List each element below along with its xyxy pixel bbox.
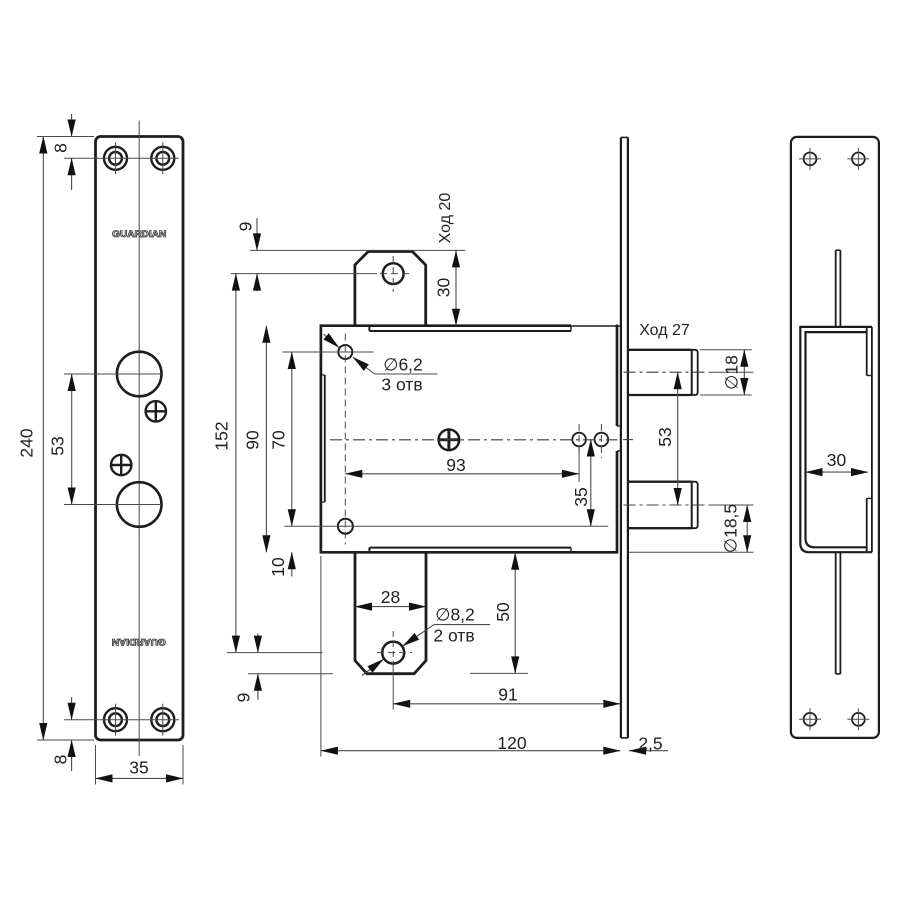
dim 91 line: [393, 703, 620, 705]
svg-text:30: 30: [434, 278, 454, 298]
top tab hole: [383, 263, 404, 284]
svg-text:9: 9: [234, 693, 254, 703]
leader dia 6.2 arrows: [324, 334, 339, 347]
upper bolt centerline: [624, 371, 710, 373]
body holes vertical dashed axis: [344, 334, 346, 545]
upper bolt end cap: [692, 350, 698, 395]
screw hole bottom-right crosshair: [162, 704, 164, 736]
main horizontal centerline: [330, 439, 618, 441]
screw hole bottom-left inner: [109, 713, 122, 726]
dim 8 top arrows: [71, 114, 73, 137]
svg-text:∅8,2: ∅8,2: [435, 605, 475, 625]
body right edge lower: [616, 451, 619, 554]
left edge slot line: [324, 375, 326, 502]
faceplate edge-on left line: [620, 137, 622, 738]
svg-text:93: 93: [446, 455, 465, 475]
cylinder hole lower centerline: [118, 504, 162, 506]
screw hole bottom-right outer: [151, 708, 174, 731]
screw hole top-right inner: [156, 152, 169, 165]
svg-text:8: 8: [51, 143, 71, 153]
dim 240 bottom extension: [37, 739, 94, 741]
svg-text:35: 35: [129, 758, 148, 778]
body bottom edge: [320, 551, 618, 554]
svg-text:91: 91: [498, 685, 517, 705]
cylinder hole upper: [117, 352, 162, 397]
body left edge: [320, 325, 323, 554]
body center hole cross: [437, 438, 460, 441]
dim 93 extension: [578, 447, 580, 483]
leader dia 8.2 underline: [434, 624, 490, 626]
svg-text:2 отв: 2 отв: [433, 626, 474, 646]
bottom tab hole: [382, 642, 404, 664]
dim dia18.5 extension lines: [629, 551, 754, 553]
svg-text:8: 8: [51, 755, 71, 765]
svg-text:50: 50: [493, 602, 513, 622]
right plate hole top-right: [852, 153, 865, 166]
dim 9 top arrows: [256, 218, 258, 250]
screw hole top-left crosshair: [115, 142, 117, 174]
body hole bottom-left centerline: [285, 525, 609, 527]
svg-text:240: 240: [17, 428, 37, 457]
dim dia18 extension lines: [700, 349, 752, 351]
dim 9 top extension lines: [250, 249, 465, 251]
svg-text:30: 30: [827, 450, 847, 470]
svg-text:53: 53: [48, 436, 68, 455]
cover plate bottom line: [369, 547, 571, 549]
dim 9 bottom arrows: [257, 634, 259, 653]
svg-text:90: 90: [243, 430, 263, 450]
left faceplate vertical centerline: [138, 121, 140, 757]
bottom tab hole crosshair: [392, 631, 394, 666]
bottom mounting tab outline: [355, 551, 426, 673]
screw hole bottom-left crosshair: [115, 704, 117, 736]
body top edge: [320, 324, 571, 327]
right plate hole top-left: [804, 153, 817, 166]
leader dia 6.2 underline: [375, 373, 438, 375]
dim 50 line: [514, 553, 516, 674]
lower bolt body: [628, 482, 691, 529]
svg-text:GUARDIAN: GUARDIAN: [112, 636, 166, 647]
dim 53 left extension lines: [64, 373, 118, 375]
dim dia18.5 line: [746, 505, 748, 552]
cylinder hole upper centerline: [118, 373, 162, 375]
dim 91 extension: [392, 664, 394, 710]
svg-text:GUARDIAN: GUARDIAN: [112, 229, 166, 240]
upper rod edge-on: [835, 250, 837, 327]
body right edge upper: [616, 325, 619, 427]
dim 152 line: [235, 274, 237, 653]
svg-text:28: 28: [381, 587, 400, 607]
screw hole top-left outer: [104, 147, 127, 170]
svg-text:3 отв: 3 отв: [381, 375, 422, 395]
dim 35 right line: [590, 440, 592, 527]
channel inner outline: [806, 332, 867, 547]
right plate hole top-left crosshair: [799, 158, 821, 160]
channel outer outline: [800, 327, 872, 552]
right plate hole bottom-right crosshair: [847, 718, 869, 720]
right pair dashed axes: [578, 424, 580, 456]
channel right lip inner segments: [866, 327, 868, 376]
dim 53 left line: [71, 374, 73, 505]
screw hole bottom-right inner: [156, 713, 169, 726]
upper bolt body: [628, 350, 691, 395]
dim 2.5 arrow: [629, 750, 668, 752]
dim dia18 line: [743, 350, 745, 395]
screw hole bottom-left outer: [104, 708, 127, 731]
dim 53 bolts line: [677, 372, 679, 505]
svg-text:35: 35: [571, 487, 591, 506]
svg-text:Ход 20: Ход 20: [437, 193, 454, 244]
right plate outline: [791, 137, 879, 738]
dim 50 extension: [470, 672, 528, 674]
dim 30 channel line: [806, 471, 869, 473]
faceplate edge-on right line: [627, 137, 629, 738]
dim 93 line: [345, 473, 579, 475]
top mounting tab outline: [355, 252, 426, 327]
body hole top-left centerline: [283, 351, 374, 353]
left faceplate outline: [96, 137, 184, 741]
faceplate edge-on end ticks: [621, 136, 628, 138]
dim 120 line: [321, 750, 620, 752]
svg-text:10: 10: [268, 557, 288, 577]
dim 8 bottom arrows: [71, 697, 73, 720]
svg-text:9: 9: [236, 222, 256, 232]
svg-text:∅6,2: ∅6,2: [383, 355, 423, 375]
svg-text:∅18,5: ∅18,5: [721, 504, 741, 553]
dim 30 line: [455, 250, 457, 325]
right plate hole bottom-right: [852, 713, 865, 726]
cylinder hole lower: [117, 482, 162, 527]
dim 28 line: [355, 606, 426, 608]
leader dia 8.2 arrows: [403, 625, 434, 646]
svg-text:120: 120: [497, 733, 526, 753]
fixing hole upper: [146, 401, 166, 421]
fixing hole lower cross: [111, 464, 131, 466]
dim 35 line: [96, 777, 184, 779]
channel right lip outer: [871, 327, 873, 552]
svg-text:53: 53: [655, 427, 675, 446]
dim 9 bottom extension: [248, 673, 333, 675]
fixing hole lower: [111, 455, 131, 475]
screw hole top-left inner: [109, 152, 122, 165]
dim 35 extension lines: [95, 745, 97, 785]
body hole top-left: [338, 345, 352, 359]
screw centerline top: [64, 157, 179, 159]
svg-text:70: 70: [268, 430, 288, 450]
body hole right pair right: [595, 433, 609, 447]
dim 152 extension bottom: [227, 652, 323, 654]
top tab hole crosshair: [392, 256, 394, 292]
screw hole top-right outer: [151, 147, 174, 170]
screw hole top-right crosshair: [162, 142, 164, 174]
dim 8 top extension lines: [37, 136, 94, 138]
cover plate top line: [369, 330, 571, 332]
fixing hole upper cross: [146, 410, 166, 412]
svg-text:Ход 27: Ход 27: [639, 322, 690, 339]
body hole right pair left: [572, 433, 586, 447]
channel right lip ticks: [867, 375, 872, 377]
svg-text:152: 152: [212, 421, 232, 450]
screw centerline bottom: [64, 719, 179, 721]
right plate hole bottom-left: [804, 713, 817, 726]
body hole bottom-left: [338, 519, 353, 534]
lower rod edge-on: [835, 552, 837, 674]
right plate hole bottom-left crosshair: [799, 718, 821, 720]
dim 120 extension: [320, 556, 322, 757]
lower bolt centerline: [624, 504, 710, 506]
dim 70 line: [291, 352, 293, 526]
svg-text:∅18: ∅18: [722, 355, 742, 390]
right plate hole top-right crosshair: [847, 158, 869, 160]
dim 90 line: [265, 326, 267, 553]
svg-text:2,5: 2,5: [638, 734, 662, 754]
body right edge notch ticks: [617, 425, 621, 427]
dim 10 arrow: [291, 552, 293, 576]
lower bolt end cap: [692, 482, 698, 529]
body center hole: [439, 430, 460, 451]
dim 240 line: [42, 137, 44, 741]
